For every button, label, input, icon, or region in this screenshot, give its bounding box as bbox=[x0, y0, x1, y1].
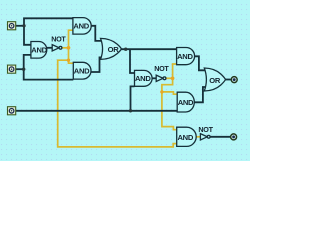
wire junction down to lower junction bbox=[68, 48, 70, 60]
AND gate U3 bbox=[73, 62, 91, 79]
wire: yellow net from NOT2 output bbox=[162, 64, 177, 130]
svg-text:AND: AND bbox=[178, 133, 194, 142]
input pin P1 bbox=[8, 22, 16, 30]
output pin Q2 bbox=[231, 134, 237, 140]
junction dark on pin2 net bbox=[22, 68, 25, 71]
wire branch down to AND7 input A bbox=[162, 92, 177, 130]
svg-text:AND: AND bbox=[73, 21, 89, 30]
svg-text:AND: AND bbox=[74, 67, 90, 76]
AND gate U4 middle bbox=[135, 70, 153, 86]
wire AND6 output up to OR2 input B bbox=[194, 87, 207, 102]
svg-text:AND: AND bbox=[31, 45, 47, 54]
junction yellow at AND6 branch bbox=[160, 90, 163, 93]
wire NOT1.out to junction bbox=[62, 47, 69, 49]
AND gate U2 left bbox=[31, 42, 47, 59]
svg-text:NOT: NOT bbox=[198, 125, 213, 134]
svg-text:OR: OR bbox=[108, 45, 120, 54]
background canvas bbox=[0, 0, 250, 161]
wire junction up to AND2 input B bbox=[24, 55, 31, 70]
wire pin2 to junction bbox=[16, 68, 24, 70]
junction yellow at NOT1 output bbox=[67, 46, 71, 50]
wire OR2 output to output pin 1 bbox=[226, 79, 231, 81]
input pin P2 bbox=[8, 65, 16, 73]
wire AND2 output to NOT1 bbox=[47, 47, 52, 49]
wire junction down, jog left, to AND6 junction bbox=[162, 78, 173, 92]
wire NOT2.out to junction bbox=[166, 77, 173, 79]
wire NOT3 output to output pin 2 bbox=[210, 136, 230, 138]
wire junction up to AND4 input B bbox=[131, 86, 135, 110]
AND gate U6 bbox=[177, 92, 194, 112]
junction yellow at NOT2 output bbox=[171, 76, 175, 80]
AND gate U7 bottom bbox=[177, 127, 197, 146]
wire junction down right to AND3 input B bbox=[24, 69, 74, 79]
wire junction down to AND2 input A bbox=[24, 26, 31, 45]
svg-text:AND: AND bbox=[178, 98, 194, 107]
wire junction down to AND4 input A bbox=[130, 49, 135, 73]
wire branch right into AND3 input A bbox=[69, 60, 74, 63]
junction dark on pin3 net bbox=[129, 109, 132, 112]
wire junction up to AND5 input B bbox=[173, 64, 177, 78]
wire AND4 output to NOT2 bbox=[152, 77, 156, 79]
OR gate U9 bbox=[204, 68, 225, 91]
svg-text:NOT: NOT bbox=[154, 64, 169, 73]
wire: yellow stub AND7 output to NOT3 bbox=[196, 136, 200, 138]
wire OR1 output across to AND5 input A bbox=[121, 48, 176, 50]
dark wires bbox=[16, 18, 231, 137]
junction dark on OR1 output net bbox=[124, 48, 127, 51]
junction dark on pin1 net bbox=[22, 24, 25, 27]
junction yellow at NOT1 branch bbox=[67, 59, 70, 62]
input pin P3 bbox=[8, 107, 16, 115]
svg-text:AND: AND bbox=[135, 74, 151, 83]
wire pin1 to junction bbox=[16, 25, 24, 27]
OR gate U8 bbox=[101, 38, 122, 59]
AND gate U1 top bbox=[73, 18, 91, 34]
wire AND5 output down to OR2 input A bbox=[195, 56, 208, 70]
NOT gate V1 bbox=[52, 45, 59, 51]
NOT gate V3 bbox=[200, 134, 207, 140]
wire junction up to AND1 input B bbox=[69, 30, 73, 48]
output pin Q1 bbox=[231, 77, 237, 83]
wire branch right into AND6 input A bbox=[162, 92, 177, 94]
wire AND1 output down to OR1 input A bbox=[91, 26, 103, 41]
svg-text:NOT: NOT bbox=[51, 35, 66, 44]
wire: yellow net from NOT1 output bbox=[58, 30, 177, 147]
wire branch left and down long run bbox=[58, 60, 177, 147]
svg-text:OR: OR bbox=[209, 76, 221, 85]
NOT gate V2 bbox=[156, 75, 163, 81]
AND gate U5 top-right bbox=[177, 48, 195, 65]
svg-text:AND: AND bbox=[177, 52, 193, 61]
wire junction up and right to AND1 input A bbox=[24, 18, 73, 26]
wire pin3 long run to AND6 input B bbox=[16, 110, 177, 112]
wire AND3 output up to OR1 input B bbox=[91, 57, 104, 72]
